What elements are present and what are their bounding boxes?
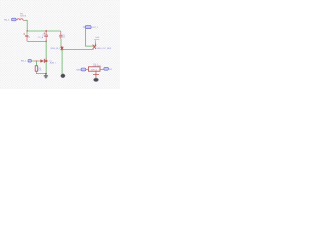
ground G1 [44, 74, 48, 78]
junction dot diode-mid wire [45, 60, 47, 62]
wire mid vertical [45, 41, 47, 73]
svg-text:AGND_1: AGND_1 [50, 61, 56, 64]
wire below R1 [36, 73, 46, 74]
capacitor C1 plus mark [23, 33, 25, 35]
ferrite bead FB1 body [17, 19, 23, 21]
capacitor C1 bottom pin [26, 37, 28, 42]
power flag stub green [94, 40, 96, 43]
svg-text:VREG_FB_1: VREG_FB_1 [50, 48, 60, 50]
capacitor C2 top pin [45, 31, 47, 35]
diode D1 anode pin [34, 60, 39, 62]
resistor R2 right pin [100, 69, 104, 71]
svg-text:10k_NTC: 10k_NTC [93, 66, 102, 68]
junction dot on bus1 at C2 [45, 30, 47, 32]
capacitor C2 plates [44, 35, 48, 36]
port P3 body [28, 59, 32, 62]
capacitor C3 plates [59, 35, 62, 37]
ground G3 [61, 74, 65, 78]
svg-text:1u: 1u [42, 35, 44, 37]
ground G2 [94, 78, 99, 82]
port P5 body (right) [104, 67, 109, 70]
svg-text:sense: sense [94, 39, 99, 41]
diode D1 cathode pin [45, 60, 48, 62]
capacitor C1 top pin [26, 31, 28, 34]
red tick on mid wire [45, 58, 47, 61]
resistor R2 body [88, 67, 100, 71]
capacitor C3 top pin [60, 31, 62, 35]
wire gnd3 vertical [61, 49, 63, 73]
wire bit before diode [39, 60, 41, 62]
junction dot at G1 [45, 73, 47, 75]
resistor R1 bottom pin [35, 71, 37, 72]
svg-text:IN_1: IN_1 [4, 19, 11, 21]
port P4 body [81, 68, 86, 71]
wire below C3 [60, 39, 62, 46]
svg-text:10k: 10k [38, 70, 41, 72]
pin of FB1 to wire [23, 19, 25, 21]
capacitor C3 bottom pin [60, 37, 62, 39]
wire branch down from D1 anode [36, 61, 38, 66]
junction X at wire ends [93, 45, 97, 49]
port P1 body [12, 18, 17, 21]
junction X at node FB [61, 47, 64, 51]
junction dot at C1 corner [27, 30, 28, 31]
resistor R2 left pin [86, 69, 88, 71]
diode D1 cathode bar [43, 59, 45, 63]
capacitor C2 bottom pin [45, 37, 47, 42]
power flag pin red [94, 43, 96, 45]
red pin into junction [60, 46, 62, 48]
wire out vertical + horizontal [86, 29, 93, 46]
wire input corner [25, 20, 27, 31]
ground pin G2 [93, 71, 99, 78]
port P2 leader dash [83, 26, 85, 28]
capacitor C1 plates [25, 35, 28, 36]
diode D1 body [41, 60, 44, 63]
resistor R1 body [35, 66, 38, 71]
svg-text:OUT_1: OUT_1 [92, 27, 99, 29]
port P2 body (OUT) [85, 26, 91, 29]
wire bus1 horizontal [27, 30, 61, 32]
junction dot at R branch [36, 60, 37, 61]
capacitor C2 plus mark [44, 32, 46, 34]
svg-text:600R/1A: 600R/1A [20, 14, 27, 17]
wire bus2 horizontal [27, 40, 46, 42]
svg-text:NTC1: NTC1 [91, 69, 98, 71]
svg-text:EN_1: EN_1 [21, 60, 27, 62]
junction dot wire2 corner [45, 41, 47, 43]
wire stub P3 [32, 60, 34, 62]
wire fb horizontal [62, 48, 94, 50]
svg-text:VREG_OUT_SEN1: VREG_OUT_SEN1 [97, 48, 112, 50]
